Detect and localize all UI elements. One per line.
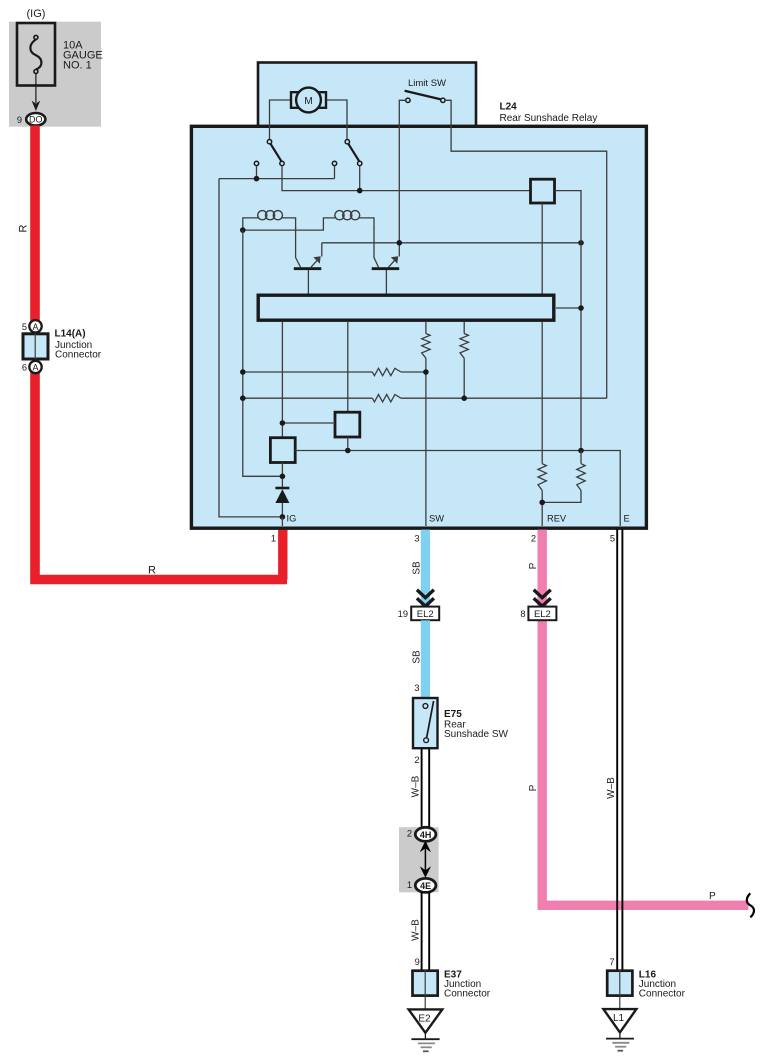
svg-text:SB: SB	[412, 561, 423, 575]
resistor R2 vertical	[460, 334, 468, 399]
svg-text:REV: REV	[547, 514, 567, 524]
node coil junction	[240, 227, 246, 233]
wire P pink REV down and right	[542, 530, 748, 906]
svg-text:4E: 4E	[420, 881, 431, 891]
pin number 1	[271, 534, 276, 544]
fuse 10A GAUGE NO.1	[17, 23, 55, 86]
pin 3 number E75	[414, 683, 419, 693]
svg-text:L1: L1	[613, 1013, 625, 1024]
svg-text:E2: E2	[418, 1014, 431, 1025]
pin name IG	[287, 514, 297, 524]
connector EL2 (19)	[411, 607, 439, 621]
svg-text:W–B: W–B	[606, 777, 617, 799]
resistor R3 horizontal with line	[243, 368, 426, 375]
svg-text:9: 9	[17, 115, 22, 125]
connector oval 4E	[415, 878, 436, 892]
transistor Q1	[294, 227, 322, 294]
svg-text:Connector: Connector	[639, 989, 686, 1000]
relay contact B	[332, 140, 362, 166]
resistor R1 vertical	[422, 334, 430, 527]
pin number 3	[414, 534, 419, 544]
svg-text:P: P	[528, 562, 539, 569]
svg-text:DO: DO	[29, 115, 43, 125]
svg-text:EL2: EL2	[534, 609, 551, 620]
pin 5 circle A	[29, 320, 41, 332]
svg-text:1: 1	[407, 880, 412, 890]
IC bar rectangle	[258, 295, 554, 320]
resistor R6 vertical	[542, 451, 585, 503]
svg-text:Limit SW: Limit SW	[408, 78, 446, 89]
diode D1	[275, 488, 289, 517]
node U2 bottom junction	[345, 448, 351, 454]
resistor R5 vertical REV	[538, 464, 546, 526]
limit switch	[405, 91, 445, 103]
wire contact commons to left rail	[219, 166, 335, 179]
wire IC right to right rail	[556, 307, 581, 309]
svg-text:6: 6	[22, 363, 27, 373]
pin 2 number 4H	[407, 829, 412, 839]
relay coil 1	[243, 211, 296, 230]
label W-B right	[606, 777, 617, 799]
wire SB EL2 to E75	[421, 620, 430, 697]
node right rail IC	[578, 305, 584, 311]
svg-text:9: 9	[415, 957, 420, 967]
label R on vertical red wire	[18, 224, 30, 232]
pin number 5	[610, 534, 615, 544]
pin 19 number	[398, 609, 408, 619]
svg-text:W–B: W–B	[411, 919, 422, 941]
node contact A common	[254, 176, 260, 182]
fuse value label	[63, 40, 103, 72]
wire fuse to connector with arrow	[32, 74, 41, 112]
wire IC bottom leads	[282, 322, 542, 464]
pin name E	[624, 514, 630, 524]
svg-text:Rear Sunshade Relay: Rear Sunshade Relay	[500, 113, 598, 124]
wire W-B double line E to L16	[617, 529, 622, 970]
pin name SW	[429, 514, 444, 524]
component U1 square	[531, 179, 555, 203]
relay box L24	[191, 126, 646, 528]
label E75 Rear Sunshade SW	[444, 709, 508, 740]
pin 9 number E37	[415, 957, 420, 967]
relay upper box	[258, 63, 476, 129]
node U2 left	[280, 420, 286, 426]
svg-text:4H: 4H	[420, 830, 432, 840]
svg-text:SW: SW	[429, 514, 444, 524]
pin 2 number E75	[414, 755, 419, 765]
svg-text:SB: SB	[412, 650, 423, 664]
svg-text:8: 8	[520, 609, 525, 619]
wire U1 right side down	[555, 191, 582, 451]
wire R red stub up to relay pin 1 IG	[278, 530, 287, 580]
wire U2 left to node	[282, 422, 335, 424]
label (IG)	[27, 8, 46, 20]
label SB lower	[412, 650, 423, 664]
svg-text:2: 2	[414, 755, 419, 765]
label L16 Junction Connector	[639, 970, 686, 1000]
pin 1 number 4E	[407, 880, 412, 890]
svg-text:3: 3	[414, 683, 419, 693]
junction connector L14(A) box	[23, 333, 48, 359]
wire W-B double line E75 to 4H	[422, 749, 430, 828]
pin 9 label	[17, 115, 22, 125]
pin 8 number	[520, 609, 525, 619]
pin name REV	[547, 514, 567, 524]
splice arrow chevrons to EL2 pink	[534, 590, 551, 607]
wire SB sky blue relay to EL2	[421, 530, 430, 607]
svg-text:M: M	[304, 96, 312, 107]
junction connector E37	[413, 970, 438, 996]
component U3 square	[270, 438, 295, 463]
node REV junction	[539, 500, 545, 506]
svg-text:5: 5	[610, 534, 615, 544]
svg-text:R: R	[18, 224, 30, 232]
wire emitter rail	[322, 242, 581, 244]
wire continuation squiggle	[747, 893, 754, 917]
component U2 square	[335, 412, 360, 437]
transistor Q2	[372, 227, 400, 294]
connector EL2 (8)	[528, 607, 556, 621]
wire contact outputs to square U1	[282, 166, 530, 191]
svg-text:E75: E75	[444, 709, 462, 720]
label R on horizontal red wire	[148, 565, 156, 577]
svg-text:A: A	[32, 322, 38, 332]
wire left rail down to IG	[219, 179, 282, 517]
wire limit sw right contact to right rail down	[445, 100, 607, 398]
relay contact A	[254, 140, 284, 166]
connector oval DO	[26, 113, 45, 126]
label L14(A) Junction Connector	[55, 329, 102, 361]
node contact B output	[357, 188, 363, 194]
ground E2	[409, 997, 443, 1051]
wire U2 bottom	[347, 437, 349, 451]
svg-text:2: 2	[531, 534, 536, 544]
node Q2 emitter / limit sw	[397, 240, 403, 246]
pin 6 circle A	[29, 361, 41, 373]
wire limit sw left contact down to Q2 emitter rail	[399, 100, 405, 243]
label W-B upper	[411, 775, 422, 797]
svg-text:W–B: W–B	[411, 775, 422, 797]
wire W-B double line 4E to E37	[422, 892, 430, 970]
svg-text:5: 5	[22, 322, 27, 332]
svg-text:Connector: Connector	[55, 350, 102, 361]
wire R red vertical from DO to L14(A) and down to elbow	[35, 126, 287, 580]
pin 7 number L16	[609, 957, 614, 967]
label W-B lower	[411, 919, 422, 941]
label P at right end	[709, 891, 716, 902]
svg-text:Sunshade SW: Sunshade SW	[444, 729, 508, 740]
wire motor leads	[270, 100, 348, 140]
svg-text:2: 2	[407, 829, 412, 839]
svg-text:E: E	[624, 514, 630, 524]
wire IG pin stub	[281, 517, 283, 526]
svg-text:1: 1	[271, 534, 276, 544]
wire coil junction rail down	[243, 230, 283, 476]
svg-text:L14(A): L14(A)	[55, 329, 86, 340]
node emitter rail right	[578, 240, 584, 246]
svg-text:7: 7	[609, 957, 614, 967]
svg-text:P: P	[528, 784, 539, 791]
splice arrow chevrons to EL2	[417, 590, 434, 607]
node R3 right	[423, 369, 429, 375]
gray block 4H/4E	[399, 827, 439, 892]
relay coil 2	[243, 211, 374, 231]
pin 6 number	[22, 363, 27, 373]
svg-text:EL2: EL2	[417, 609, 434, 620]
svg-text:R: R	[148, 565, 156, 577]
svg-text:IG: IG	[287, 514, 297, 524]
wire U3 right to E rail	[295, 451, 620, 527]
svg-text:P: P	[709, 891, 716, 902]
label Limit SW	[408, 78, 446, 89]
node diode top	[280, 474, 286, 480]
svg-text:19: 19	[398, 609, 408, 619]
resistor R4 horizontal with line	[243, 395, 607, 402]
node right rail bottom	[578, 448, 584, 454]
connector oval 4H	[415, 827, 436, 841]
label E37 Junction Connector	[444, 970, 491, 1000]
svg-text:A: A	[32, 363, 38, 373]
svg-text:NO. 1: NO. 1	[63, 60, 92, 72]
switch E75 box	[413, 698, 438, 748]
wire U1 bottom down to IC bar	[541, 203, 543, 294]
wire U3 bottom to diode	[281, 463, 283, 489]
label L24 Rear Sunshade Relay	[500, 102, 598, 125]
pin number 2	[531, 534, 536, 544]
label P upper	[528, 562, 539, 569]
motor M	[291, 88, 326, 113]
svg-text:(IG): (IG)	[27, 8, 46, 20]
svg-text:Connector: Connector	[444, 989, 491, 1000]
node R4 left	[240, 395, 246, 401]
label SB upper	[412, 561, 423, 575]
node R3 left	[240, 369, 246, 375]
svg-text:3: 3	[414, 534, 419, 544]
label P middle	[528, 784, 539, 791]
junction connector L16	[607, 970, 632, 996]
fuse block background	[9, 22, 101, 127]
node R4 R2 junction	[461, 395, 467, 401]
ground L1	[603, 997, 636, 1051]
pin 5 number	[22, 322, 27, 332]
node IG pin	[280, 514, 286, 520]
arrows between 4H and 4E	[420, 841, 431, 878]
svg-text:L24: L24	[500, 102, 518, 113]
